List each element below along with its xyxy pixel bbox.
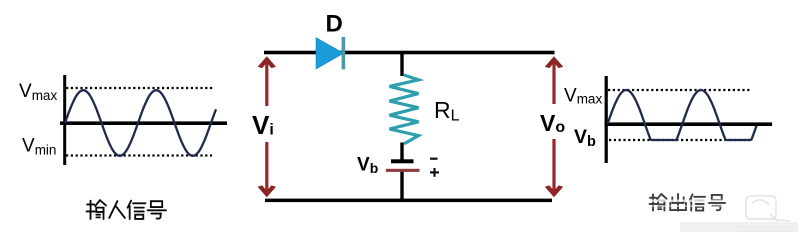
wire: resistor to battery [400,143,403,161]
battery Vb: bottom plate (positive, long, dark red) [386,169,420,172]
Vi measurement arrow (red, double-headed) [258,56,276,197]
battery polarity: minus sign [430,158,438,160]
compression streaks over caption [647,200,728,202]
left waveform: Vmax dotted level line [66,87,213,89]
wire: bottom rail [265,199,552,203]
diode D: anode wire is top rail; triangle [316,38,343,69]
label Vi (white backing breaks arrow) [250,106,277,142]
svg-text:Vb: Vb [574,126,596,150]
right waveform: clipped output wave [608,90,757,140]
right waveform: horizontal axis [605,122,773,126]
svg-text:Vb: Vb [357,155,378,177]
svg-text:Vmax: Vmax [19,81,57,103]
label Vo (white backing breaks arrow) [538,104,567,139]
faint watermark [746,196,790,226]
caption: output signal (Chinese, degraded gray) [649,194,725,211]
caption: input signal (Chinese) [87,200,166,219]
left waveform: input sine wave [65,90,216,156]
battery polarity: plus sign [430,168,439,177]
right waveform: Vb dotted level line [609,139,752,141]
wire: battery to bottom rail [400,172,403,200]
resistor RL zigzag [390,75,419,144]
left waveform: horizontal axis [60,121,227,125]
right waveform: Vmax dotted level line [608,89,752,91]
svg-text:RL: RL [434,97,460,125]
wire: top rail [264,51,555,55]
svg-text:Vmax: Vmax [564,86,602,107]
left waveform: Vmin dotted level line [66,154,212,156]
battery Vb: top plate (negative, short, black) [391,159,414,163]
svg-text:D: D [326,11,343,38]
svg-text:Vmin: Vmin [22,136,56,158]
wire: top rail to resistor [400,54,403,76]
Vo measurement arrow (red, double-headed) [545,56,563,197]
right waveform: vertical axis [605,76,608,163]
diode D: cathode bar [342,37,346,69]
left waveform: vertical axis [63,75,66,165]
